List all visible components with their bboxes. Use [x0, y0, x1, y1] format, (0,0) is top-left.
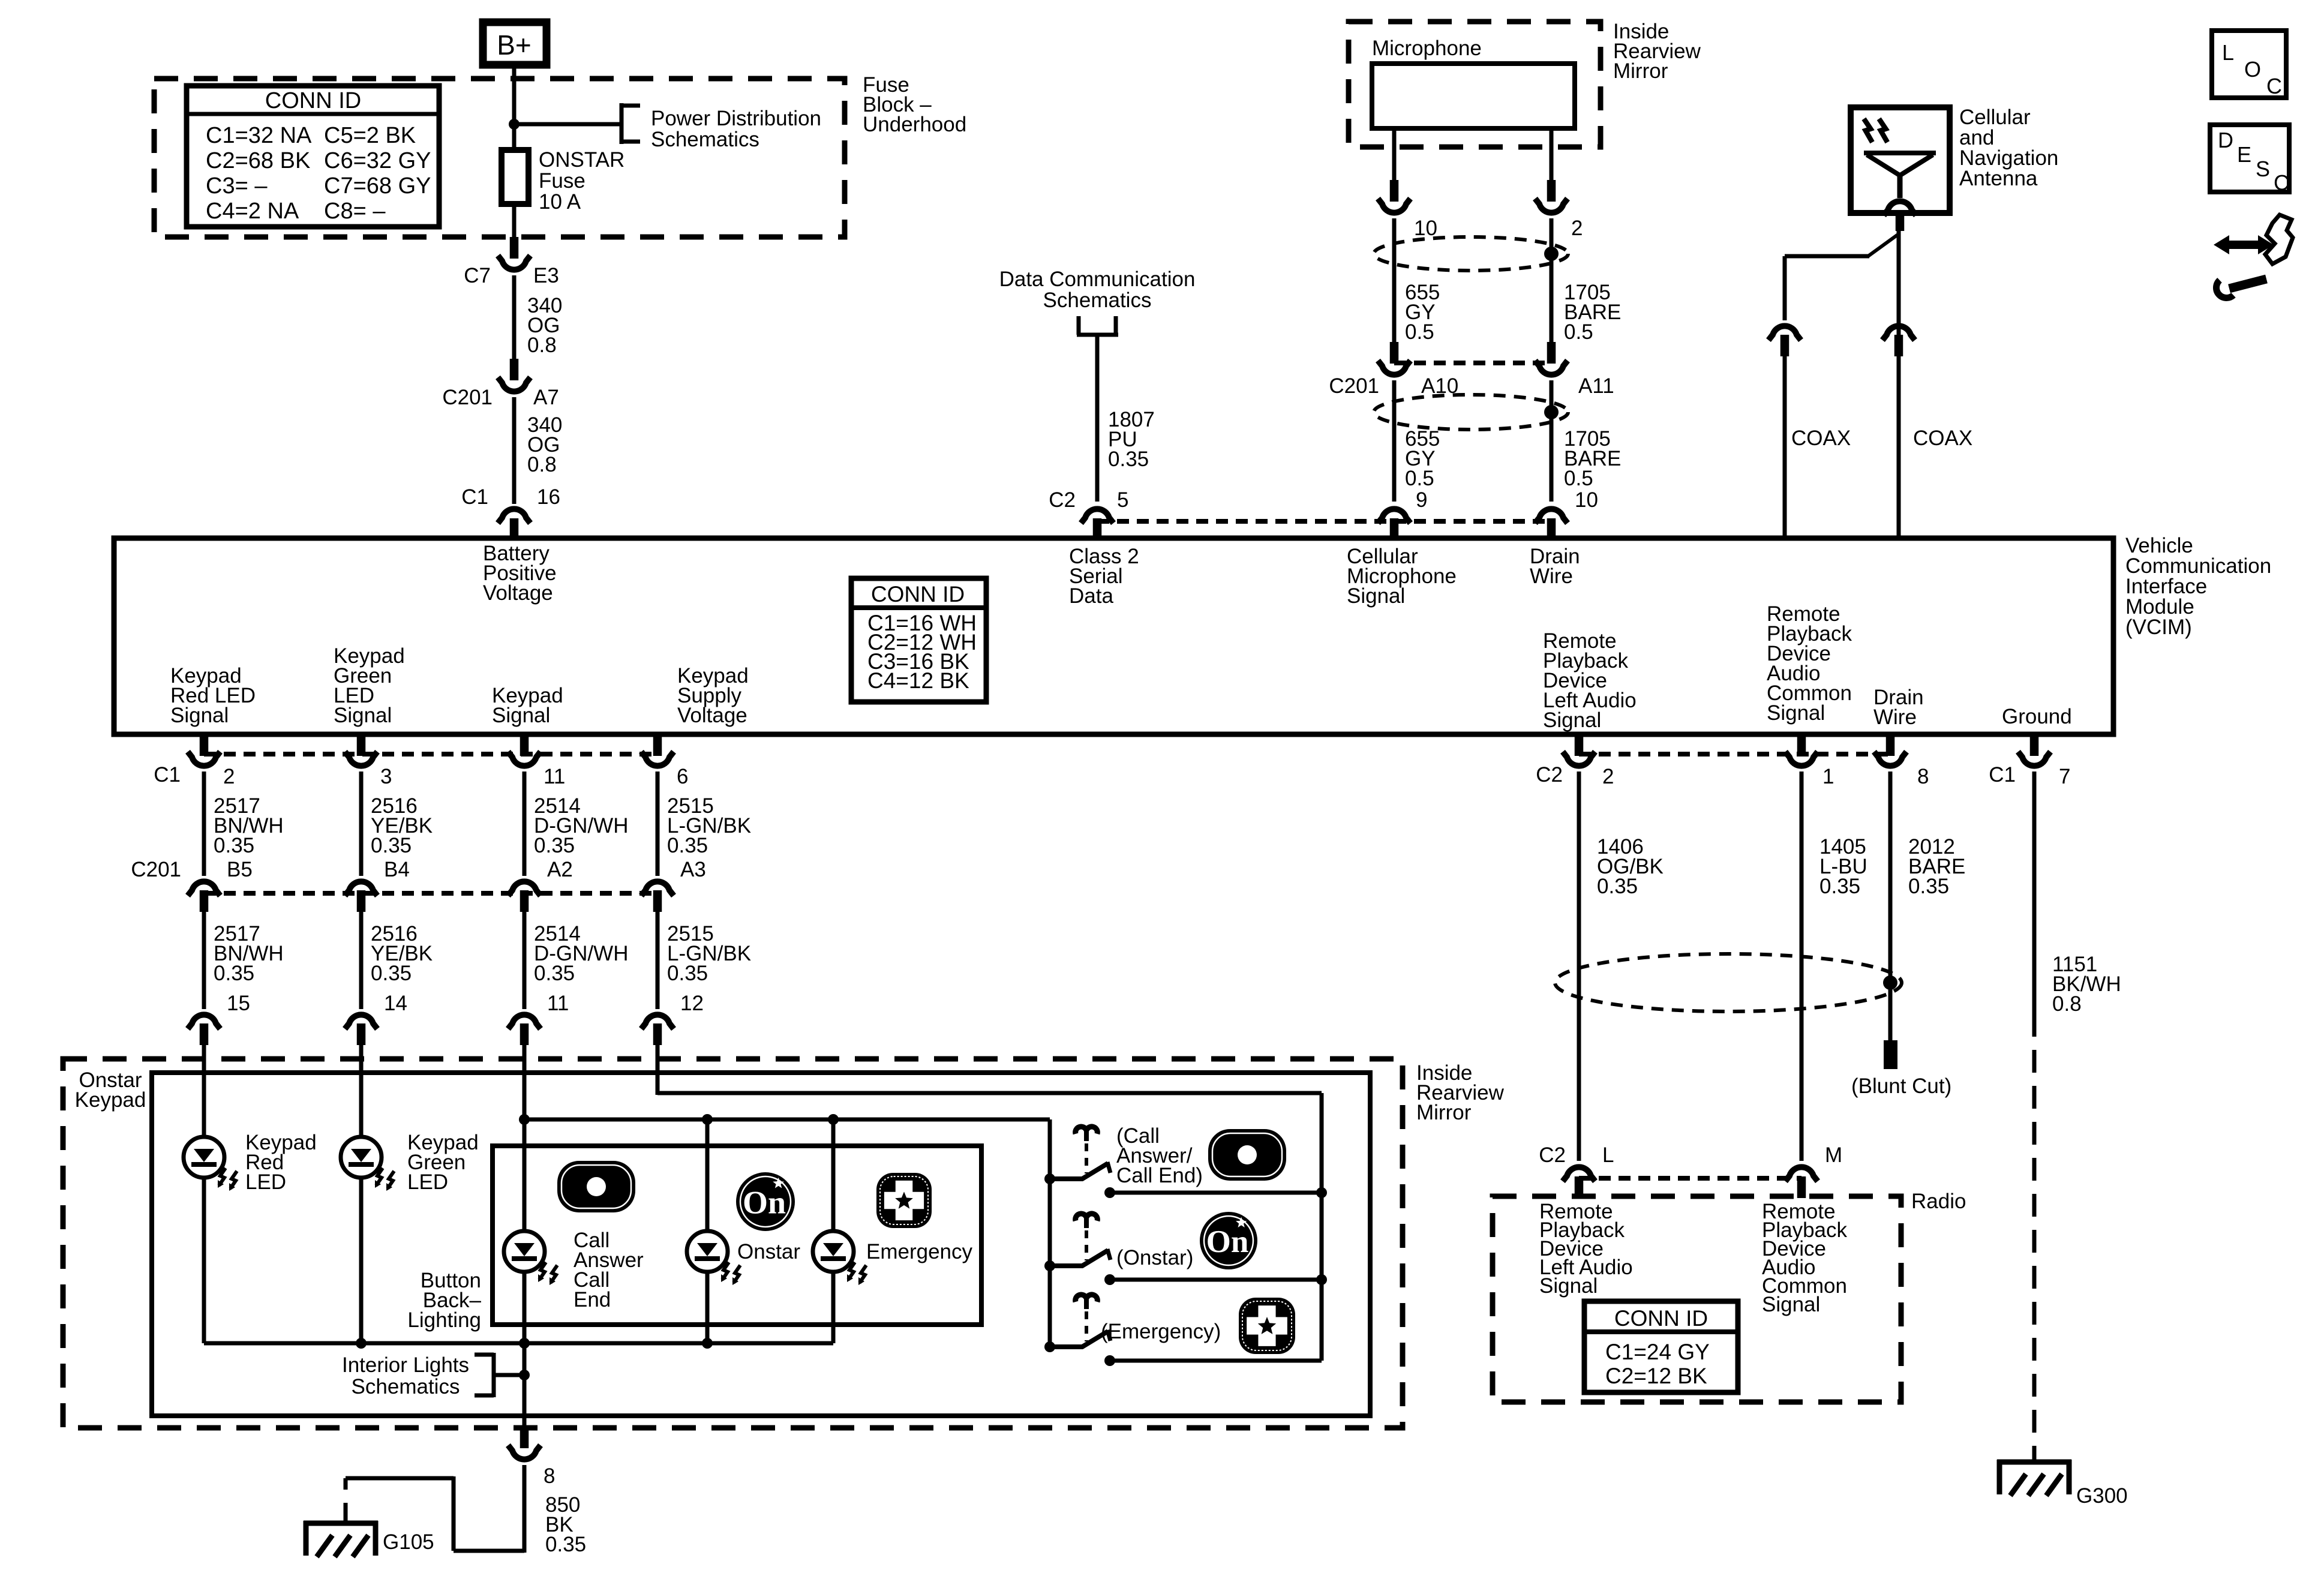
C201 connector x=874	[508, 881, 541, 896]
wire 2012 BARE 0.35	[1888, 772, 1893, 1040]
VCIM module box	[114, 538, 2113, 734]
onstar logo icon (switch)	[1200, 1212, 1257, 1269]
keypad supply voltage wire	[656, 1045, 660, 1095]
svg-text:ONSTAR: ONSTAR	[539, 148, 624, 172]
svg-text:Radio: Radio	[1911, 1190, 1966, 1213]
svg-text:Voltage: Voltage	[677, 704, 747, 727]
svg-text:8: 8	[544, 1464, 555, 1488]
C201 connector x=340	[188, 881, 220, 896]
svg-text:0.35: 0.35	[545, 1533, 586, 1556]
C1 exit connector x=1096	[653, 736, 662, 756]
VCIM bottom exit connector x=3151	[1886, 736, 1895, 756]
emergency icon (backlight)	[876, 1173, 932, 1228]
call answer icon (switch)	[1208, 1129, 1286, 1181]
service icon arrow and wrench	[2227, 241, 2260, 249]
wire 2514 D-GN/WH (2)	[523, 912, 527, 1009]
wire 1406 OG/BK 0.35	[1577, 772, 1581, 1161]
keypad entry connector x=874	[508, 1014, 541, 1029]
CONN ID table (fuse block)	[187, 86, 439, 227]
svg-text:COAX: COAX	[1791, 427, 1851, 450]
svg-text:C201: C201	[442, 386, 493, 409]
switch output rows	[1110, 1191, 1322, 1195]
emergency LED D5	[831, 1119, 836, 1231]
svg-text:12: 12	[680, 992, 704, 1015]
connector pin 2	[1547, 180, 1556, 202]
keypad entry connector x=602	[345, 1014, 377, 1029]
svg-text:C2=68 BK: C2=68 BK	[206, 148, 310, 173]
svg-text:C6=32 GY: C6=32 GY	[324, 148, 431, 173]
svg-text:G300: G300	[2076, 1484, 2128, 1508]
antenna symbol	[1864, 151, 1936, 155]
svg-text:C201: C201	[131, 858, 181, 881]
connector C7/E3	[510, 237, 519, 259]
wire fuse to C7	[512, 204, 517, 237]
svg-text:LED: LED	[407, 1170, 448, 1194]
button back-lighting box	[493, 1146, 981, 1325]
svg-text:(Onstar): (Onstar)	[1116, 1246, 1193, 1269]
C201 connector x=1096	[641, 881, 674, 896]
svg-text:Lighting: Lighting	[407, 1308, 481, 1332]
svg-text:Signal: Signal	[492, 704, 550, 727]
svg-text:Mirror: Mirror	[1416, 1101, 1472, 1124]
fuse F ONSTAR 10A	[502, 150, 529, 204]
wire 2515 L-GN/BK	[656, 772, 660, 876]
svg-text:Interior Lights: Interior Lights	[342, 1353, 469, 1377]
interior lights junction	[519, 1370, 530, 1380]
keypad green LED D2	[341, 1137, 382, 1178]
svg-text:Mirror: Mirror	[1613, 59, 1668, 83]
svg-text:5: 5	[1117, 488, 1128, 512]
connector C201 A10	[1390, 342, 1399, 364]
svg-text:C: C	[2274, 170, 2289, 195]
wire red led signal into keypad	[202, 1045, 206, 1137]
svg-text:CONN ID: CONN ID	[1614, 1306, 1708, 1331]
VCIM bottom exit connector x=2632	[1575, 736, 1584, 756]
ground G300	[1997, 1460, 2071, 1465]
wire 2516 YE/BK	[359, 772, 364, 876]
svg-text:C1=24 GY: C1=24 GY	[1605, 1340, 1710, 1364]
svg-text:C1=32 NA: C1=32 NA	[206, 123, 312, 148]
svg-text:B4: B4	[384, 858, 410, 881]
svg-text:0.5: 0.5	[1564, 467, 1593, 490]
svg-text:C4=2 NA: C4=2 NA	[206, 199, 299, 224]
svg-text:Keypad: Keypad	[75, 1088, 146, 1112]
antenna exit connector	[1884, 201, 1916, 215]
svg-text:A7: A7	[533, 386, 559, 409]
bottom cathode bus	[204, 1341, 833, 1346]
svg-text:Schematics: Schematics	[651, 128, 759, 151]
svg-text:Data Communication: Data Communication	[999, 268, 1196, 291]
svg-text:11: 11	[547, 992, 569, 1015]
svg-text:Signal: Signal	[1539, 1274, 1598, 1298]
svg-text:Underhood: Underhood	[863, 113, 966, 136]
coax connector left	[1768, 326, 1801, 340]
wire to power distribution	[514, 122, 621, 127]
svg-text:0.35: 0.35	[667, 834, 708, 857]
svg-text:0.35: 0.35	[667, 962, 708, 985]
svg-text:C7=68 GY: C7=68 GY	[324, 173, 431, 199]
svg-text:0.35: 0.35	[534, 962, 575, 985]
keypad signal to exit	[523, 1343, 527, 1427]
DESC box	[2210, 125, 2289, 192]
svg-text:Microphone: Microphone	[1372, 37, 1482, 60]
svg-text:Call End): Call End)	[1116, 1164, 1203, 1187]
pin 9 entry	[1378, 509, 1410, 523]
VCIM bottom exit connector x=3003	[1797, 736, 1806, 756]
svg-text:E: E	[2237, 142, 2251, 167]
svg-text:2: 2	[1571, 217, 1583, 240]
svg-text:Signal: Signal	[1767, 701, 1825, 725]
svg-text:0.8: 0.8	[527, 453, 557, 476]
svg-text:L: L	[1602, 1143, 1614, 1167]
svg-text:0.35: 0.35	[371, 834, 412, 857]
twisted pair ellipse 2	[1374, 395, 1568, 430]
svg-text:A11: A11	[1578, 374, 1614, 398]
svg-text:C1: C1	[1989, 763, 2016, 787]
pin 10 entry	[1535, 509, 1568, 523]
supply feed line to switches	[657, 1091, 1322, 1095]
svg-text:6: 6	[677, 765, 688, 788]
junction node	[509, 119, 520, 130]
wire 1405 L-BU 0.35	[1800, 772, 1804, 1161]
svg-text:Data: Data	[1069, 584, 1113, 608]
wire 1151 BK/WH 0.8	[2032, 772, 2037, 1014]
svg-text:C1: C1	[154, 763, 181, 787]
svg-text:10 A: 10 A	[539, 190, 581, 214]
svg-text:Antenna: Antenna	[1959, 167, 2038, 190]
dashed connector row C201	[1394, 361, 1551, 365]
switch S3 emergency	[1044, 1341, 1055, 1352]
svg-text:C7: C7	[464, 264, 491, 287]
svg-text:O: O	[2244, 57, 2261, 82]
svg-text:On: On	[1206, 1224, 1249, 1259]
keypad red LED D1	[184, 1137, 224, 1178]
antenna wire split	[1897, 230, 1901, 536]
bracket interior lights schematics	[492, 1353, 496, 1397]
svg-text:D: D	[2218, 128, 2233, 152]
svg-text:0.5: 0.5	[1405, 467, 1434, 490]
svg-text:0.5: 0.5	[1564, 320, 1593, 344]
svg-text:(Blunt Cut): (Blunt Cut)	[1851, 1074, 1951, 1098]
connector A11	[1547, 342, 1556, 364]
svg-text:C5=2 BK: C5=2 BK	[324, 123, 416, 148]
LOC box	[2212, 31, 2286, 98]
keypad entry connector x=1096	[641, 1014, 674, 1029]
svg-text:0.35: 0.35	[1597, 875, 1638, 898]
svg-text:B5: B5	[227, 858, 253, 881]
wires to C201	[1392, 218, 1397, 342]
backlight bus	[524, 1118, 1050, 1122]
svg-text:0.5: 0.5	[1405, 320, 1434, 344]
connector C1/16 into VCIM	[498, 509, 530, 523]
C201 connector x=602	[345, 881, 377, 896]
svg-text:Ground: Ground	[2002, 705, 2072, 728]
svg-text:(Emergency): (Emergency)	[1101, 1320, 1221, 1343]
svg-text:Wire: Wire	[1873, 706, 1917, 729]
C1 exit connector x=340	[200, 736, 209, 756]
wire to G105	[454, 1549, 524, 1553]
svg-text:14: 14	[384, 992, 407, 1015]
svg-text:Signal: Signal	[1762, 1293, 1820, 1316]
svg-text:C2: C2	[1049, 488, 1076, 512]
svg-text:Voltage: Voltage	[483, 581, 553, 605]
wires below C201	[1392, 380, 1397, 502]
svg-text:COAX: COAX	[1913, 427, 1972, 450]
svg-text:CONN ID: CONN ID	[265, 88, 361, 113]
svg-text:8: 8	[1917, 765, 1929, 788]
connector C2/5 into VCIM	[1081, 509, 1113, 523]
ground G105	[304, 1521, 378, 1526]
CONN ID table (radio)	[1584, 1301, 1738, 1392]
svg-text:M: M	[1825, 1143, 1842, 1167]
svg-text:0.8: 0.8	[2052, 992, 2082, 1016]
svg-text:C3= –: C3= –	[206, 173, 268, 199]
onstar LED D4	[705, 1119, 710, 1231]
drain junction dot	[1544, 247, 1559, 261]
switch output bus	[1320, 1093, 1324, 1361]
wire B+ down	[512, 63, 517, 150]
svg-text:Power Distribution: Power Distribution	[651, 107, 821, 130]
inside rearview mirror dashed box (microphone)	[1349, 22, 1601, 147]
svg-text:0.35: 0.35	[214, 834, 254, 857]
keypad signal wire	[523, 1045, 527, 1231]
wire 850 BK 0.35	[523, 1465, 527, 1553]
wire 1807 PU 0.35	[1095, 335, 1100, 502]
svg-text:L: L	[2222, 40, 2234, 65]
onstar logo icon (backlight)	[736, 1172, 795, 1231]
dashed connector row C2 top	[1097, 519, 1551, 524]
svg-text:Schematics: Schematics	[352, 1375, 460, 1398]
svg-text:10: 10	[1575, 488, 1598, 512]
bracket data communication	[1077, 316, 1081, 335]
svg-text:0.35: 0.35	[1908, 875, 1949, 898]
wire green led signal into keypad	[359, 1045, 364, 1137]
svg-text:End: End	[574, 1288, 611, 1311]
svg-text:2: 2	[1602, 765, 1614, 788]
svg-text:Wire: Wire	[1530, 565, 1573, 588]
svg-text:0.35: 0.35	[371, 962, 412, 985]
svg-text:Fuse: Fuse	[539, 169, 585, 193]
svg-text:C4=12 BK: C4=12 BK	[867, 668, 969, 693]
twisted pair ellipse 1	[1374, 237, 1568, 271]
svg-text:C8= –: C8= –	[324, 199, 386, 224]
svg-text:C2: C2	[1539, 1143, 1566, 1167]
CONN ID table (VCIM)	[851, 578, 986, 702]
svg-text:Emergency: Emergency	[866, 1240, 973, 1263]
svg-text:LED: LED	[245, 1170, 286, 1194]
svg-text:11: 11	[544, 765, 565, 788]
switch S1 call answer/call end	[1044, 1173, 1055, 1184]
keypad inner solid box	[152, 1073, 1370, 1416]
svg-text:Schematics: Schematics	[1043, 289, 1152, 312]
radio entry connectors L / M	[1563, 1167, 1595, 1181]
svg-text:0.35: 0.35	[1819, 875, 1860, 898]
wire 340 OG 0.8	[512, 275, 517, 359]
svg-text:0.35: 0.35	[1108, 448, 1149, 471]
svg-text:C2=12 BK: C2=12 BK	[1605, 1364, 1707, 1388]
wire 2515 L-GN/BK (2)	[656, 912, 660, 1009]
antenna lightning marks	[1864, 119, 1872, 142]
radio dashed box	[1493, 1196, 1901, 1402]
twisted pair ellipse (audio)	[1555, 954, 1902, 1011]
svg-text:A3: A3	[680, 858, 706, 881]
svg-text:Signal: Signal	[334, 704, 392, 727]
switch S2 onstar	[1044, 1260, 1055, 1271]
svg-text:9: 9	[1416, 488, 1427, 512]
svg-text:Signal: Signal	[1347, 584, 1405, 608]
coax connector right (on main)	[1882, 326, 1915, 340]
svg-text:7: 7	[2059, 765, 2070, 788]
svg-text:Onstar: Onstar	[737, 1240, 800, 1263]
wire 340 OG 0.8 (2)	[512, 397, 517, 504]
svg-text:C1: C1	[461, 485, 488, 509]
svg-text:16: 16	[537, 485, 560, 509]
wire 2514 D-GN/WH	[523, 772, 527, 876]
svg-text:2: 2	[223, 765, 235, 788]
wire 2517 BN/WH	[202, 772, 206, 876]
connector row C201	[204, 891, 657, 896]
emergency icon (switch)	[1239, 1298, 1295, 1354]
svg-text:Signal: Signal	[170, 704, 229, 727]
keypad exit connector 8	[520, 1427, 529, 1448]
svg-text:E3: E3	[533, 264, 559, 287]
wire 2517 BN/WH (2)	[202, 912, 206, 1009]
svg-text:C2: C2	[1536, 763, 1563, 787]
svg-text:CONN ID: CONN ID	[871, 582, 965, 607]
connector row C2 bottom right	[1579, 752, 1890, 757]
cellular and navigation antenna box	[1851, 107, 1950, 213]
svg-text:0.35: 0.35	[534, 834, 575, 857]
svg-text:On: On	[743, 1185, 786, 1221]
fuse block underhood dashed box	[154, 79, 845, 237]
svg-text:0.35: 0.35	[214, 962, 254, 985]
onstar keypad dashed box (inside rearview mirror)	[63, 1059, 1403, 1428]
svg-text:15: 15	[227, 992, 250, 1015]
connector row C1 bottom left	[204, 752, 657, 757]
wire 2516 YE/BK (2)	[359, 912, 364, 1009]
connector pin 10	[1390, 180, 1399, 202]
call answer icon (backlight)	[557, 1161, 635, 1212]
VCIM bottom exit connector x=3391	[2030, 736, 2039, 756]
connector C201/A7	[510, 359, 519, 380]
C1 exit connector x=874	[520, 736, 529, 756]
svg-text:G105: G105	[383, 1530, 434, 1554]
bracket power distribution schematics	[620, 103, 624, 144]
C1 exit connector x=602	[357, 736, 366, 756]
keypad entry connector x=340	[188, 1014, 220, 1029]
switch common bus	[1048, 1119, 1052, 1347]
svg-text:0.8: 0.8	[527, 334, 557, 357]
svg-text:S: S	[2256, 157, 2270, 181]
svg-text:C201: C201	[1329, 374, 1379, 398]
svg-text:C: C	[2266, 74, 2282, 98]
power feed B+	[483, 22, 547, 65]
svg-text:1: 1	[1822, 765, 1834, 788]
svg-text:(VCIM): (VCIM)	[2125, 616, 2192, 639]
blunt cut pin	[1884, 1040, 1897, 1069]
svg-text:B+: B+	[497, 29, 532, 61]
svg-text:3: 3	[380, 765, 392, 788]
svg-text:A2: A2	[547, 858, 573, 881]
mic wires	[1392, 128, 1397, 180]
backlight LED D3	[504, 1231, 545, 1272]
svg-text:Signal: Signal	[1543, 709, 1601, 732]
